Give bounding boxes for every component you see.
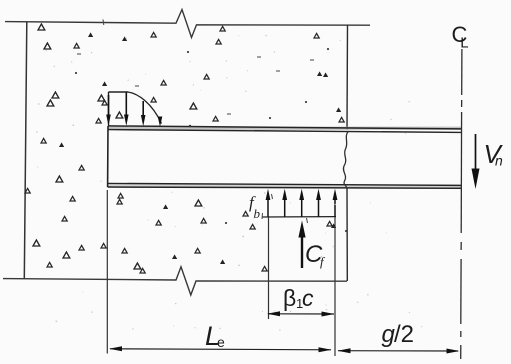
- applied shear V_n arrow: [475, 134, 477, 172]
- concrete bottom edge with break symbol: [3, 267, 347, 295]
- svg-text:β: β: [283, 285, 296, 311]
- g/2 dimension line: [338, 350, 458, 352]
- dimension extension line at plate end (L_e left): [106, 190, 108, 354]
- f_b arrow 2: [284, 199, 286, 217]
- steel plate bottom flange (double line): [108, 184, 462, 187]
- stress arrow down 3: [142, 101, 144, 116]
- scan tick near f_b arrow 1: [272, 194, 273, 199]
- dimension extension line left of beta1c (under f_b left): [268, 217, 270, 319]
- concrete top edge with break symbol: [5, 10, 370, 38]
- f_b arrow 1: [267, 199, 269, 217]
- svg-text:L: L: [460, 35, 468, 52]
- compression stress block outline above plate: [108, 92, 110, 126]
- beta1c dimension line: [268, 313, 334, 315]
- f_b baseline: [262, 216, 336, 218]
- svg-text:n: n: [495, 153, 503, 169]
- f_b arrow 4: [318, 199, 320, 217]
- svg-text:/2: /2: [394, 321, 414, 348]
- stress arrow down 4: [159, 117, 161, 118]
- svg-text:e: e: [217, 334, 225, 350]
- f_b arrow 5: [334, 199, 336, 217]
- steel plate left end: [107, 126, 109, 187]
- faint scan noise: [36, 35, 422, 331]
- concrete right edge lower: [346, 188, 348, 282]
- scan tick near C_f arrowhead: [307, 218, 308, 223]
- steel plate top flange (double line): [108, 127, 462, 130]
- centerline (dash-dot): [461, 49, 463, 95]
- f_b arrow 3: [301, 199, 303, 217]
- scan tick at baseline start: [261, 213, 264, 219]
- concrete right edge upper: [346, 25, 349, 129]
- svg-text:b: b: [254, 206, 261, 221]
- steel plate wavy break line: [343, 131, 348, 187]
- stress arrow down 1: [108, 95, 110, 116]
- stress arrow down 2: [125, 93, 127, 116]
- concrete stipple texture: [25, 24, 347, 273]
- concrete left edge: [24, 22, 27, 279]
- svg-text:c: c: [302, 285, 314, 311]
- resultant C_f arrow: [301, 234, 303, 268]
- L_e dimension line: [110, 349, 331, 350]
- dimension extension line shared (right of beta1c): [334, 217, 336, 356]
- scan tick on top edge: [102, 20, 105, 26]
- stress block envelope curve: [128, 92, 162, 124]
